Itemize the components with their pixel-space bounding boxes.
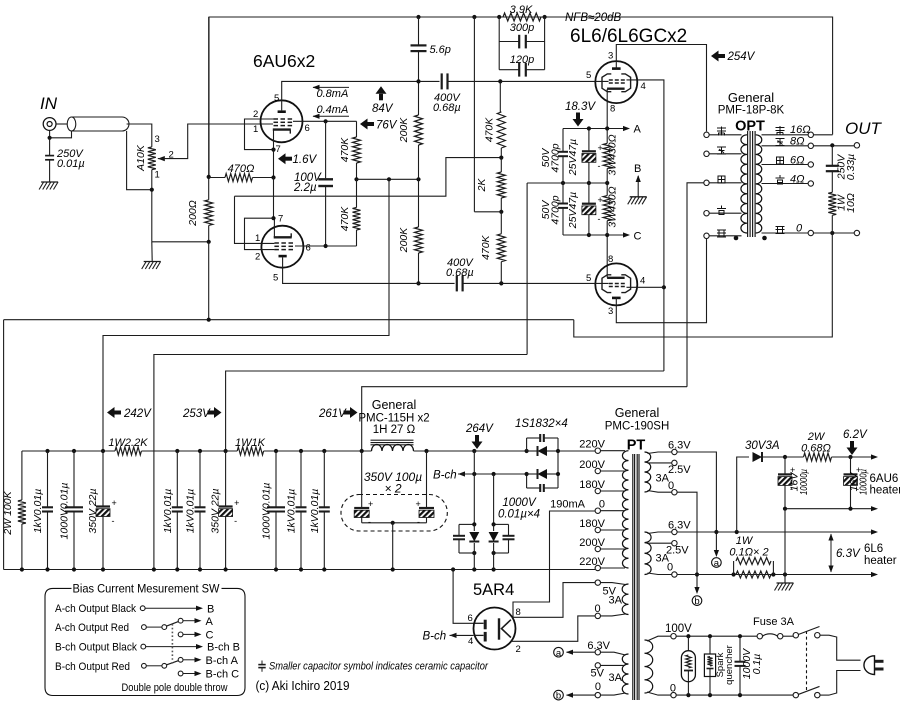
- svg-text:6.2V: 6.2V: [843, 429, 868, 441]
- svg-text:PMC-190SH: PMC-190SH: [605, 421, 670, 433]
- svg-text:0.68µ: 0.68µ: [446, 267, 474, 279]
- svg-text:PMC-115H x2: PMC-115H x2: [358, 413, 429, 425]
- svg-text:B: B: [207, 603, 214, 615]
- tube 6L6 no.2 (lower output): [595, 263, 637, 305]
- shielded cable (coax): [72, 117, 130, 131]
- svg-text:3: 3: [608, 306, 613, 317]
- capacitor 1kV0.01u (filter e): [199, 451, 201, 507]
- svg-text:quencher: quencher: [724, 645, 735, 685]
- wire 6L6 no.2 cathode pin8 to C node: [606, 235, 608, 278]
- svg-text:4: 4: [640, 276, 645, 287]
- svg-text:1000V0.01µ: 1000V0.01µ: [59, 483, 71, 540]
- resistor 470K (6L6 no.1 grid leak): [499, 81, 501, 112]
- svg-text:1000V: 1000V: [502, 497, 537, 509]
- svg-text:200K: 200K: [398, 117, 410, 144]
- svg-text:1W: 1W: [736, 535, 754, 547]
- switch (mains, lower pole): [793, 692, 798, 697]
- svg-text:350V 22µ: 350V 22µ: [210, 488, 222, 533]
- svg-text:6AU6x2: 6AU6x2: [253, 51, 315, 71]
- capacitor 50V 4700p (no.2): [562, 183, 564, 204]
- svg-text:470K: 470K: [339, 206, 351, 232]
- svg-text:× 2: × 2: [384, 482, 401, 496]
- svg-text:25V47µ: 25V47µ: [567, 139, 579, 176]
- svg-text:-: -: [598, 161, 601, 171]
- resistor 3.9K (NFB): [503, 13, 541, 21]
- svg-text:253V: 253V: [182, 408, 211, 420]
- svg-text:2.5V: 2.5V: [668, 464, 691, 476]
- resistor 200ohm (NFB leg / cathode): [208, 17, 210, 200]
- capacitor 400V 0.68u (coupling no.2): [419, 282, 455, 284]
- wire 5V winding 0 to 5AR4 pin2: [511, 616, 595, 641]
- tube 6AU6 no.2 (second stage, mirrored): [261, 226, 303, 268]
- svg-text:0: 0: [667, 562, 673, 574]
- svg-text:A10K: A10K: [135, 144, 147, 172]
- svg-text:2K: 2K: [476, 178, 488, 193]
- svg-text:6.3V: 6.3V: [836, 548, 861, 560]
- svg-text:3A: 3A: [609, 672, 623, 684]
- wire 6AU6 heater return line: [785, 508, 872, 510]
- svg-text:a: a: [714, 558, 720, 569]
- capacitor 1000V0.01u (filter b): [73, 451, 75, 507]
- svg-text:1: 1: [155, 170, 160, 181]
- svg-text:4700p: 4700p: [550, 195, 562, 224]
- svg-text:1H 27 Ω: 1H 27 Ω: [373, 424, 416, 436]
- surge absorber (barretter oval): [687, 636, 689, 651]
- tube 6AU6 no.1 (input pentode, top): [261, 100, 303, 142]
- svg-text:470K: 470K: [480, 234, 492, 260]
- svg-text:1kV0.01µ: 1kV0.01µ: [286, 489, 298, 534]
- svg-text:0.68Ω: 0.68Ω: [801, 443, 831, 455]
- svg-text:heater: heater: [870, 485, 900, 497]
- svg-text:8Ω: 8Ω: [790, 136, 805, 148]
- svg-text:-: -: [598, 214, 601, 224]
- svg-text:General: General: [372, 398, 416, 412]
- svg-text:7: 7: [278, 214, 283, 225]
- arrow 242V: [107, 407, 115, 418]
- svg-text:6.3V: 6.3V: [668, 440, 691, 452]
- resistor 1W2.2K (B+ dropper): [115, 447, 141, 455]
- wire B+ rail 261V section: [264, 450, 372, 452]
- svg-text:+: +: [368, 499, 373, 509]
- diode pair 1S1832 with cap (lower): [526, 474, 528, 488]
- OPT polarity dots: [734, 236, 739, 241]
- capacitor 350V 22u (filter f): [225, 451, 227, 507]
- svg-text:b: b: [556, 691, 561, 702]
- svg-text:84V: 84V: [372, 103, 394, 115]
- svg-text:-: -: [234, 516, 237, 526]
- capacitor 250V 0.33u (zobel): [831, 145, 833, 166]
- resistor 2W 0.68ohm: [785, 456, 804, 458]
- capacitor 1kV0.01u (filter d): [176, 451, 178, 507]
- svg-text:6L6/6L6GCx2: 6L6/6L6GCx2: [570, 26, 687, 47]
- svg-text:5: 5: [273, 273, 278, 284]
- svg-text:heater: heater: [864, 555, 897, 567]
- wire heater filter to ground node: [784, 509, 786, 575]
- PT primary HV winding coil: [622, 451, 628, 568]
- wire a-terminal to 6.3V tap: [567, 651, 596, 653]
- wire grid line of no.2 to 2K node: [235, 158, 502, 197]
- svg-text:Double pole double throw: Double pole double throw: [122, 682, 228, 694]
- capacitor 50V 4700p (no.1): [562, 129, 564, 152]
- OPT primary terminal orange (dai) B+ input: [704, 180, 709, 185]
- svg-text:4Ω: 4Ω: [790, 174, 805, 186]
- wire 6L6 no.1 plate pin3 to OPT brown: [616, 45, 706, 132]
- svg-text:1W2.2K: 1W2.2K: [108, 437, 148, 449]
- svg-text:8: 8: [608, 254, 613, 265]
- svg-text:2: 2: [253, 109, 258, 120]
- wire 6.3V top tap to a-node: [677, 452, 716, 550]
- svg-text:470K: 470K: [339, 137, 351, 163]
- svg-text:4: 4: [468, 636, 473, 647]
- wire 100u caps common to ground rail: [362, 522, 427, 524]
- wire cathode mid rail to ground bus riser: [526, 183, 528, 355]
- wire 6AU6 no.1 pin2 to cathode: [245, 119, 274, 150]
- resistor 470ohm (6AU6 cathode): [209, 177, 225, 179]
- svg-text:3: 3: [155, 134, 160, 145]
- arrow 1.6V at cathode: [278, 153, 286, 164]
- svg-text:180V: 180V: [579, 479, 605, 491]
- bias current measurement switch box: [45, 588, 245, 695]
- svg-text:0: 0: [599, 499, 605, 511]
- svg-text:470K: 470K: [484, 117, 496, 143]
- svg-text:261V: 261V: [318, 408, 347, 420]
- wire cathode rail C: [563, 234, 627, 236]
- svg-text:8: 8: [610, 104, 615, 115]
- svg-text:PT: PT: [627, 438, 646, 454]
- annotation 0.8mA current arrow: [313, 86, 349, 88]
- svg-text:0.4mA: 0.4mA: [317, 104, 349, 116]
- wire snubber bottoms to ground rail: [473, 553, 475, 570]
- svg-text:8: 8: [516, 607, 521, 618]
- svg-text:242V: 242V: [123, 408, 152, 420]
- PT secondary 6.3V/2.5V/0 winding (top): [645, 452, 651, 492]
- svg-text:3: 3: [608, 51, 613, 62]
- svg-text:4: 4: [641, 81, 646, 92]
- svg-text:2.2µ: 2.2µ: [293, 182, 317, 194]
- note ceramic capacitor symbol: [261, 661, 263, 665]
- OPT primary terminal red (aka): [704, 151, 709, 156]
- svg-text:6: 6: [305, 123, 310, 134]
- svg-text:264V: 264V: [465, 423, 494, 435]
- wire 6.3V lower tap heater line 6L6: [677, 531, 872, 533]
- resistor 200K (plate load no.2): [418, 179, 420, 227]
- arrow 76V at screen node: [360, 119, 368, 130]
- svg-text:1kV0.01µ: 1kV0.01µ: [185, 489, 197, 534]
- wire B-ch AC arrow at 5AR4 pin4: [450, 633, 457, 638]
- svg-text:-: -: [417, 517, 420, 527]
- svg-text:C: C: [634, 231, 642, 243]
- svg-text:3A: 3A: [609, 595, 623, 607]
- capacitor 400V 0.68u (coupling no.1): [419, 80, 440, 82]
- wire 6AU6 no.2 plate to coupling node: [283, 257, 419, 283]
- svg-text:2W 100K: 2W 100K: [2, 490, 14, 535]
- svg-text:5V: 5V: [591, 668, 605, 680]
- resistor 470K (screen feed no.1): [356, 121, 358, 137]
- wire b-terminal to 0 tap: [567, 694, 596, 696]
- resistor 1W 10ohm (zobel): [828, 192, 836, 215]
- capacitor 1kV0.01u (filter i): [323, 451, 325, 507]
- resistor 2W 100K (bleeder): [21, 451, 23, 500]
- arrow 84V at plate line: [376, 86, 387, 94]
- svg-text:300p: 300p: [510, 22, 534, 34]
- svg-text:6L6: 6L6: [864, 543, 883, 555]
- OPT primary winding coil: [741, 135, 747, 233]
- capacitor 250V 0.01u (input RF bypass): [49, 138, 51, 156]
- wire cathode mid rail (ground return): [527, 182, 607, 184]
- resistor 3W430ohm (cathode no.2): [606, 183, 608, 196]
- svg-text:B-ch Output Black: B-ch Output Black: [55, 642, 137, 654]
- capacitor 16V 10000u (heater filter 1): [784, 457, 786, 474]
- svg-text:1000V0.01µ: 1000V0.01µ: [261, 483, 273, 540]
- wire cathode rail A: [563, 128, 627, 130]
- svg-text:A: A: [206, 616, 214, 628]
- svg-text:1kV0.01µ: 1kV0.01µ: [162, 489, 174, 534]
- OPT secondary tap gray 6ohm: [762, 164, 809, 166]
- wire NFB drop to 2K node: [473, 17, 475, 212]
- svg-text:7: 7: [276, 144, 281, 155]
- capacitor 350V 22u (filter c): [102, 451, 104, 507]
- OPT secondary tap white 4ohm: [762, 183, 809, 185]
- wire 6AU6 no.1 screen pin 6 to 470K: [293, 120, 357, 122]
- svg-text:5: 5: [274, 93, 279, 104]
- wire 5AR4 plate pin6 to ground rail: [453, 570, 474, 624]
- OPT primary terminal brown (cha): [704, 132, 709, 137]
- svg-text:190mA: 190mA: [550, 499, 586, 511]
- terminal OUT hot (8 ohm): [854, 143, 859, 148]
- svg-text:B-ch B: B-ch B: [207, 642, 240, 654]
- svg-text:PMF-18P-8K: PMF-18P-8K: [718, 105, 785, 117]
- PT secondary 100V winding: [645, 640, 653, 693]
- resistor 200K (plate load no.1): [418, 81, 420, 115]
- svg-text:IN: IN: [40, 94, 58, 113]
- svg-text:C: C: [206, 630, 214, 642]
- AC plug: [864, 656, 875, 675]
- wire ground rail (bottom bus): [4, 569, 595, 571]
- svg-text:10000µ: 10000µ: [858, 469, 870, 495]
- svg-text:6AU6: 6AU6: [870, 473, 899, 485]
- capacitor 25V47u electrolytic (no.2): [588, 183, 590, 204]
- svg-text:6Ω: 6Ω: [790, 155, 805, 167]
- capacitor 1kV0.01u (filter a): [47, 451, 49, 507]
- OPT secondary winding coil: [756, 135, 762, 233]
- svg-text:(c) Aki Ichiro 2019: (c) Aki Ichiro 2019: [256, 678, 350, 693]
- wire 6AU6 no.1 plate to coupling node (84V line): [282, 81, 419, 110]
- svg-text:5AR4: 5AR4: [473, 581, 514, 599]
- capacitor 16V 10000u (heater filter 2): [850, 457, 852, 474]
- OPT secondary tap violet 8ohm: [762, 145, 809, 147]
- OPT primary terminal yellow (ki): [704, 211, 709, 216]
- capacitor 5.6p (feedback): [418, 17, 420, 45]
- capacitor 100V 2.2u (screen coupling): [325, 121, 327, 178]
- annotation 6.3V between heater lines: [830, 534, 832, 572]
- svg-text:76V: 76V: [376, 120, 398, 132]
- svg-text:+: +: [234, 498, 239, 508]
- switch mechanical link (dashed): [806, 631, 808, 691]
- svg-text:a: a: [556, 648, 562, 659]
- svg-text:1.6V: 1.6V: [293, 154, 318, 166]
- wire B+ rail 253V section: [141, 450, 237, 452]
- svg-text:B-ch Output Red: B-ch Output Red: [55, 661, 130, 673]
- svg-text:3W430Ω: 3W430Ω: [607, 134, 619, 175]
- tube 5AR4 (rectifier): [474, 608, 516, 650]
- svg-text:0: 0: [670, 683, 676, 695]
- svg-text:Smaller capacitor symbol indic: Smaller capacitor symbol indicates ceram…: [269, 661, 488, 673]
- svg-text:25V47µ: 25V47µ: [567, 192, 579, 229]
- svg-text:1: 1: [255, 233, 260, 244]
- svg-text:1W1K: 1W1K: [235, 437, 266, 449]
- wire ground return riser mid: [154, 355, 527, 570]
- resistor 470K (screen feed no.2): [356, 179, 358, 207]
- svg-text:254V: 254V: [727, 51, 756, 63]
- svg-text:2: 2: [255, 252, 260, 263]
- wire 261V feed choke input to OPT: [362, 387, 687, 451]
- svg-text:6.3V: 6.3V: [587, 640, 610, 652]
- PT 6.3V/5V/0 winding (bias): [622, 654, 628, 694]
- svg-text:NFB≈20dB: NFB≈20dB: [565, 12, 621, 24]
- ground (pot / first stage): [151, 242, 153, 262]
- svg-text:OUT: OUT: [845, 119, 883, 138]
- svg-text:1kV0.01µ: 1kV0.01µ: [32, 489, 44, 534]
- svg-text:0.01µ×4: 0.01µ×4: [498, 509, 540, 521]
- wire jack to shielded cable: [56, 123, 68, 125]
- OPT secondary tap blue 16ohm to NFB: [762, 134, 809, 136]
- wire screens 253V feed: [226, 371, 664, 451]
- wire 6AU6 no.2 pin2 to cathode node: [245, 218, 275, 249]
- svg-text:200V: 200V: [579, 537, 605, 549]
- svg-text:-: -: [368, 517, 371, 527]
- svg-text:6.3V: 6.3V: [668, 520, 691, 532]
- svg-text:220V: 220V: [579, 556, 605, 568]
- svg-text:1: 1: [253, 124, 258, 135]
- svg-text:0.68µ: 0.68µ: [433, 102, 461, 114]
- svg-text:A: A: [634, 124, 642, 136]
- wire B-ch B+ output arrow: [458, 471, 465, 476]
- wire 6L6 no.1 cathode pin8 to A node: [606, 89, 608, 129]
- wire 6L6 no.1 grid pin5 from coupling cap: [501, 80, 608, 82]
- wire divider node 179 to 200K junction: [357, 178, 419, 180]
- svg-text:120p: 120p: [510, 54, 534, 66]
- svg-text:180V: 180V: [579, 518, 605, 530]
- svg-text:B-ch C: B-ch C: [206, 669, 240, 681]
- ground (heater return): [784, 575, 786, 584]
- wire NFB top bus from 200ohm node to 16-ohm tap: [209, 17, 833, 177]
- arrow 254V at OPT primary top: [711, 51, 719, 62]
- svg-text:General: General: [615, 406, 659, 420]
- wire HV center tap to 5AR4 pin 8: [513, 511, 595, 619]
- switch (mains, upper pole): [793, 633, 798, 638]
- svg-text:3.9K: 3.9K: [510, 4, 533, 16]
- wire choke output to 264V node: [414, 450, 475, 452]
- wire 6L6 no.2 screen pin4 to screens bus: [627, 286, 664, 288]
- svg-text:350V 22µ: 350V 22µ: [87, 488, 99, 533]
- svg-text:0.33µ: 0.33µ: [845, 154, 857, 181]
- PT HV taps 220V/200V/180V/0/180V/200V/220V: [595, 448, 600, 453]
- svg-text:0: 0: [796, 223, 803, 235]
- svg-text:1kV0.01µ: 1kV0.01µ: [309, 489, 321, 534]
- tube 6L6 no.1 (upper output): [595, 61, 637, 103]
- svg-text:0: 0: [668, 480, 674, 492]
- svg-text:5.6p: 5.6p: [430, 44, 451, 56]
- wire 6AU6 no.2 grid pin1 from divider: [235, 196, 275, 243]
- wire orange terminal to 261V feed riser: [687, 183, 704, 387]
- svg-text:5: 5: [586, 70, 591, 81]
- svg-text:6: 6: [306, 243, 311, 254]
- OPT primary terminal green (midori): [704, 233, 709, 238]
- potentiometer A10K (volume): [148, 147, 156, 170]
- capacitor 300p (NFB): [498, 17, 500, 42]
- terminal OUT common: [854, 230, 859, 235]
- svg-text:2W: 2W: [807, 431, 826, 443]
- svg-text:100V: 100V: [665, 623, 692, 635]
- svg-text:Fuse 3A: Fuse 3A: [753, 616, 795, 628]
- resistor 470K (6L6 no.2 grid leak): [500, 212, 502, 234]
- ground (input): [41, 181, 58, 183]
- svg-text:200Ω: 200Ω: [187, 200, 199, 227]
- svg-text:2: 2: [516, 644, 521, 655]
- wire 5V winding to 5AR4 filament pin8: [513, 583, 595, 618]
- OPT secondary tap black 0: [762, 232, 809, 234]
- wire 264V node down to snubber network: [473, 451, 475, 524]
- wire 0 line of 100V winding: [676, 694, 793, 696]
- svg-text:b: b: [694, 596, 699, 607]
- wire pot pin1 to ground bus and cable shield drop: [127, 131, 152, 190]
- svg-text:1S1832×4: 1S1832×4: [515, 418, 568, 430]
- PT secondary 6.3V/2.5V/0 winding (lower): [645, 532, 652, 575]
- svg-text:2.5V: 2.5V: [666, 545, 689, 557]
- wire switch to AC plug: [829, 635, 861, 660]
- svg-text:+: +: [112, 498, 117, 508]
- svg-text:B-ch: B-ch: [423, 631, 447, 643]
- svg-text:30V3A: 30V3A: [745, 440, 780, 452]
- svg-text:220V: 220V: [579, 439, 605, 451]
- svg-text:0: 0: [595, 603, 601, 615]
- svg-text:4700p: 4700p: [550, 143, 562, 172]
- svg-text:18.3V: 18.3V: [565, 101, 596, 113]
- capacitor 1000V 0.1u (across mains): [739, 636, 741, 662]
- svg-text:0.1µ: 0.1µ: [751, 654, 763, 675]
- capacitor 1000V0.01u (filter g): [275, 451, 277, 507]
- wire heater return 0 line: [677, 574, 872, 576]
- svg-text:10000µ: 10000µ: [798, 469, 810, 495]
- svg-text:B-ch A: B-ch A: [206, 655, 239, 667]
- wire OUT common to ground bus: [574, 233, 833, 337]
- svg-text:200V: 200V: [579, 459, 605, 471]
- svg-text:10Ω: 10Ω: [845, 193, 857, 213]
- svg-text:16Ω: 16Ω: [790, 124, 811, 136]
- resistor 3W430ohm (cathode no.1): [606, 129, 608, 144]
- svg-text:+: +: [416, 499, 421, 509]
- svg-text:General: General: [728, 90, 774, 105]
- capacitor 25V47u electrolytic (no.1): [588, 129, 590, 152]
- svg-text:A-ch Output Red: A-ch Output Red: [55, 622, 129, 634]
- svg-text:Bias Current Mesurement SW: Bias Current Mesurement SW: [73, 582, 220, 596]
- wire 200ohm bottom to ground bus line: [208, 242, 210, 320]
- svg-text:3W430Ω: 3W430Ω: [607, 186, 619, 227]
- svg-text:200K: 200K: [398, 227, 410, 254]
- svg-text:0.8mA: 0.8mA: [317, 88, 349, 100]
- svg-text:5: 5: [586, 273, 591, 284]
- wire 0 top tap to b-node: [677, 492, 697, 587]
- svg-text:0: 0: [595, 681, 601, 693]
- wire B+ rail 242V section: [22, 450, 115, 452]
- svg-text:470Ω: 470Ω: [228, 163, 255, 175]
- capacitor 1kV0.01u (filter h): [300, 451, 302, 507]
- wire 6AU6 no.1 cathode down to 470ohm node: [273, 150, 275, 178]
- PT 5V 3A winding: [622, 584, 628, 615]
- svg-text:-: -: [112, 516, 115, 526]
- wire 30V3A rectifier feed from lower 6.3V: [737, 457, 749, 532]
- wire 6AU6 no.2 screen pin6 line: [295, 245, 357, 247]
